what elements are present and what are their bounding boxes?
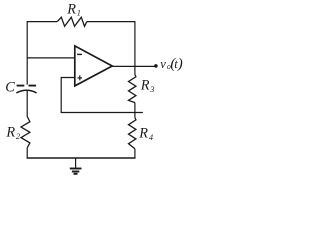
wire R2 to bottom rail (26, 148, 28, 158)
svg-text:R: R (5, 125, 15, 141)
svg-text:R: R (66, 2, 76, 18)
svg-text:1: 1 (77, 9, 81, 18)
wire right vertical top to R3 (134, 21, 136, 75)
svg-text:): ) (177, 56, 183, 72)
svg-text:4: 4 (149, 133, 153, 142)
op-amp minus sign (77, 53, 82, 55)
wire bottom rail (27, 157, 136, 159)
ground bar 1 (70, 168, 82, 170)
svg-text:v: v (160, 57, 166, 71)
output node dot (154, 64, 158, 68)
resistor R3 (129, 75, 136, 103)
wire non-inverting input loop (61, 78, 143, 113)
wire inverting input (27, 57, 75, 59)
resistor R4 (129, 118, 136, 149)
ground stem (75, 158, 77, 168)
resistor R2 (21, 117, 30, 148)
wire op-amp output (112, 65, 155, 67)
op-amp U1 (75, 46, 112, 86)
resistor R1 (57, 17, 87, 26)
svg-text:R: R (140, 77, 150, 93)
wire top rail left segment (27, 21, 57, 23)
wire left vertical top to capacitor (26, 21, 28, 85)
ground bar 2 (72, 171, 79, 173)
wire capacitor to R2 (26, 90, 28, 116)
capacitor C top plate (17, 85, 36, 87)
wire R4 to bottom rail (134, 149, 136, 158)
svg-text:C: C (5, 79, 15, 95)
svg-text:3: 3 (149, 85, 154, 94)
op-amp plus sign (78, 75, 82, 80)
wire top rail right segment (87, 21, 135, 23)
svg-text:R: R (138, 125, 148, 141)
svg-text:2: 2 (16, 132, 20, 141)
ground bar 3 (74, 173, 78, 175)
wire R3 to R4 (134, 103, 136, 118)
capacitor C curved bottom plate (16, 90, 36, 93)
